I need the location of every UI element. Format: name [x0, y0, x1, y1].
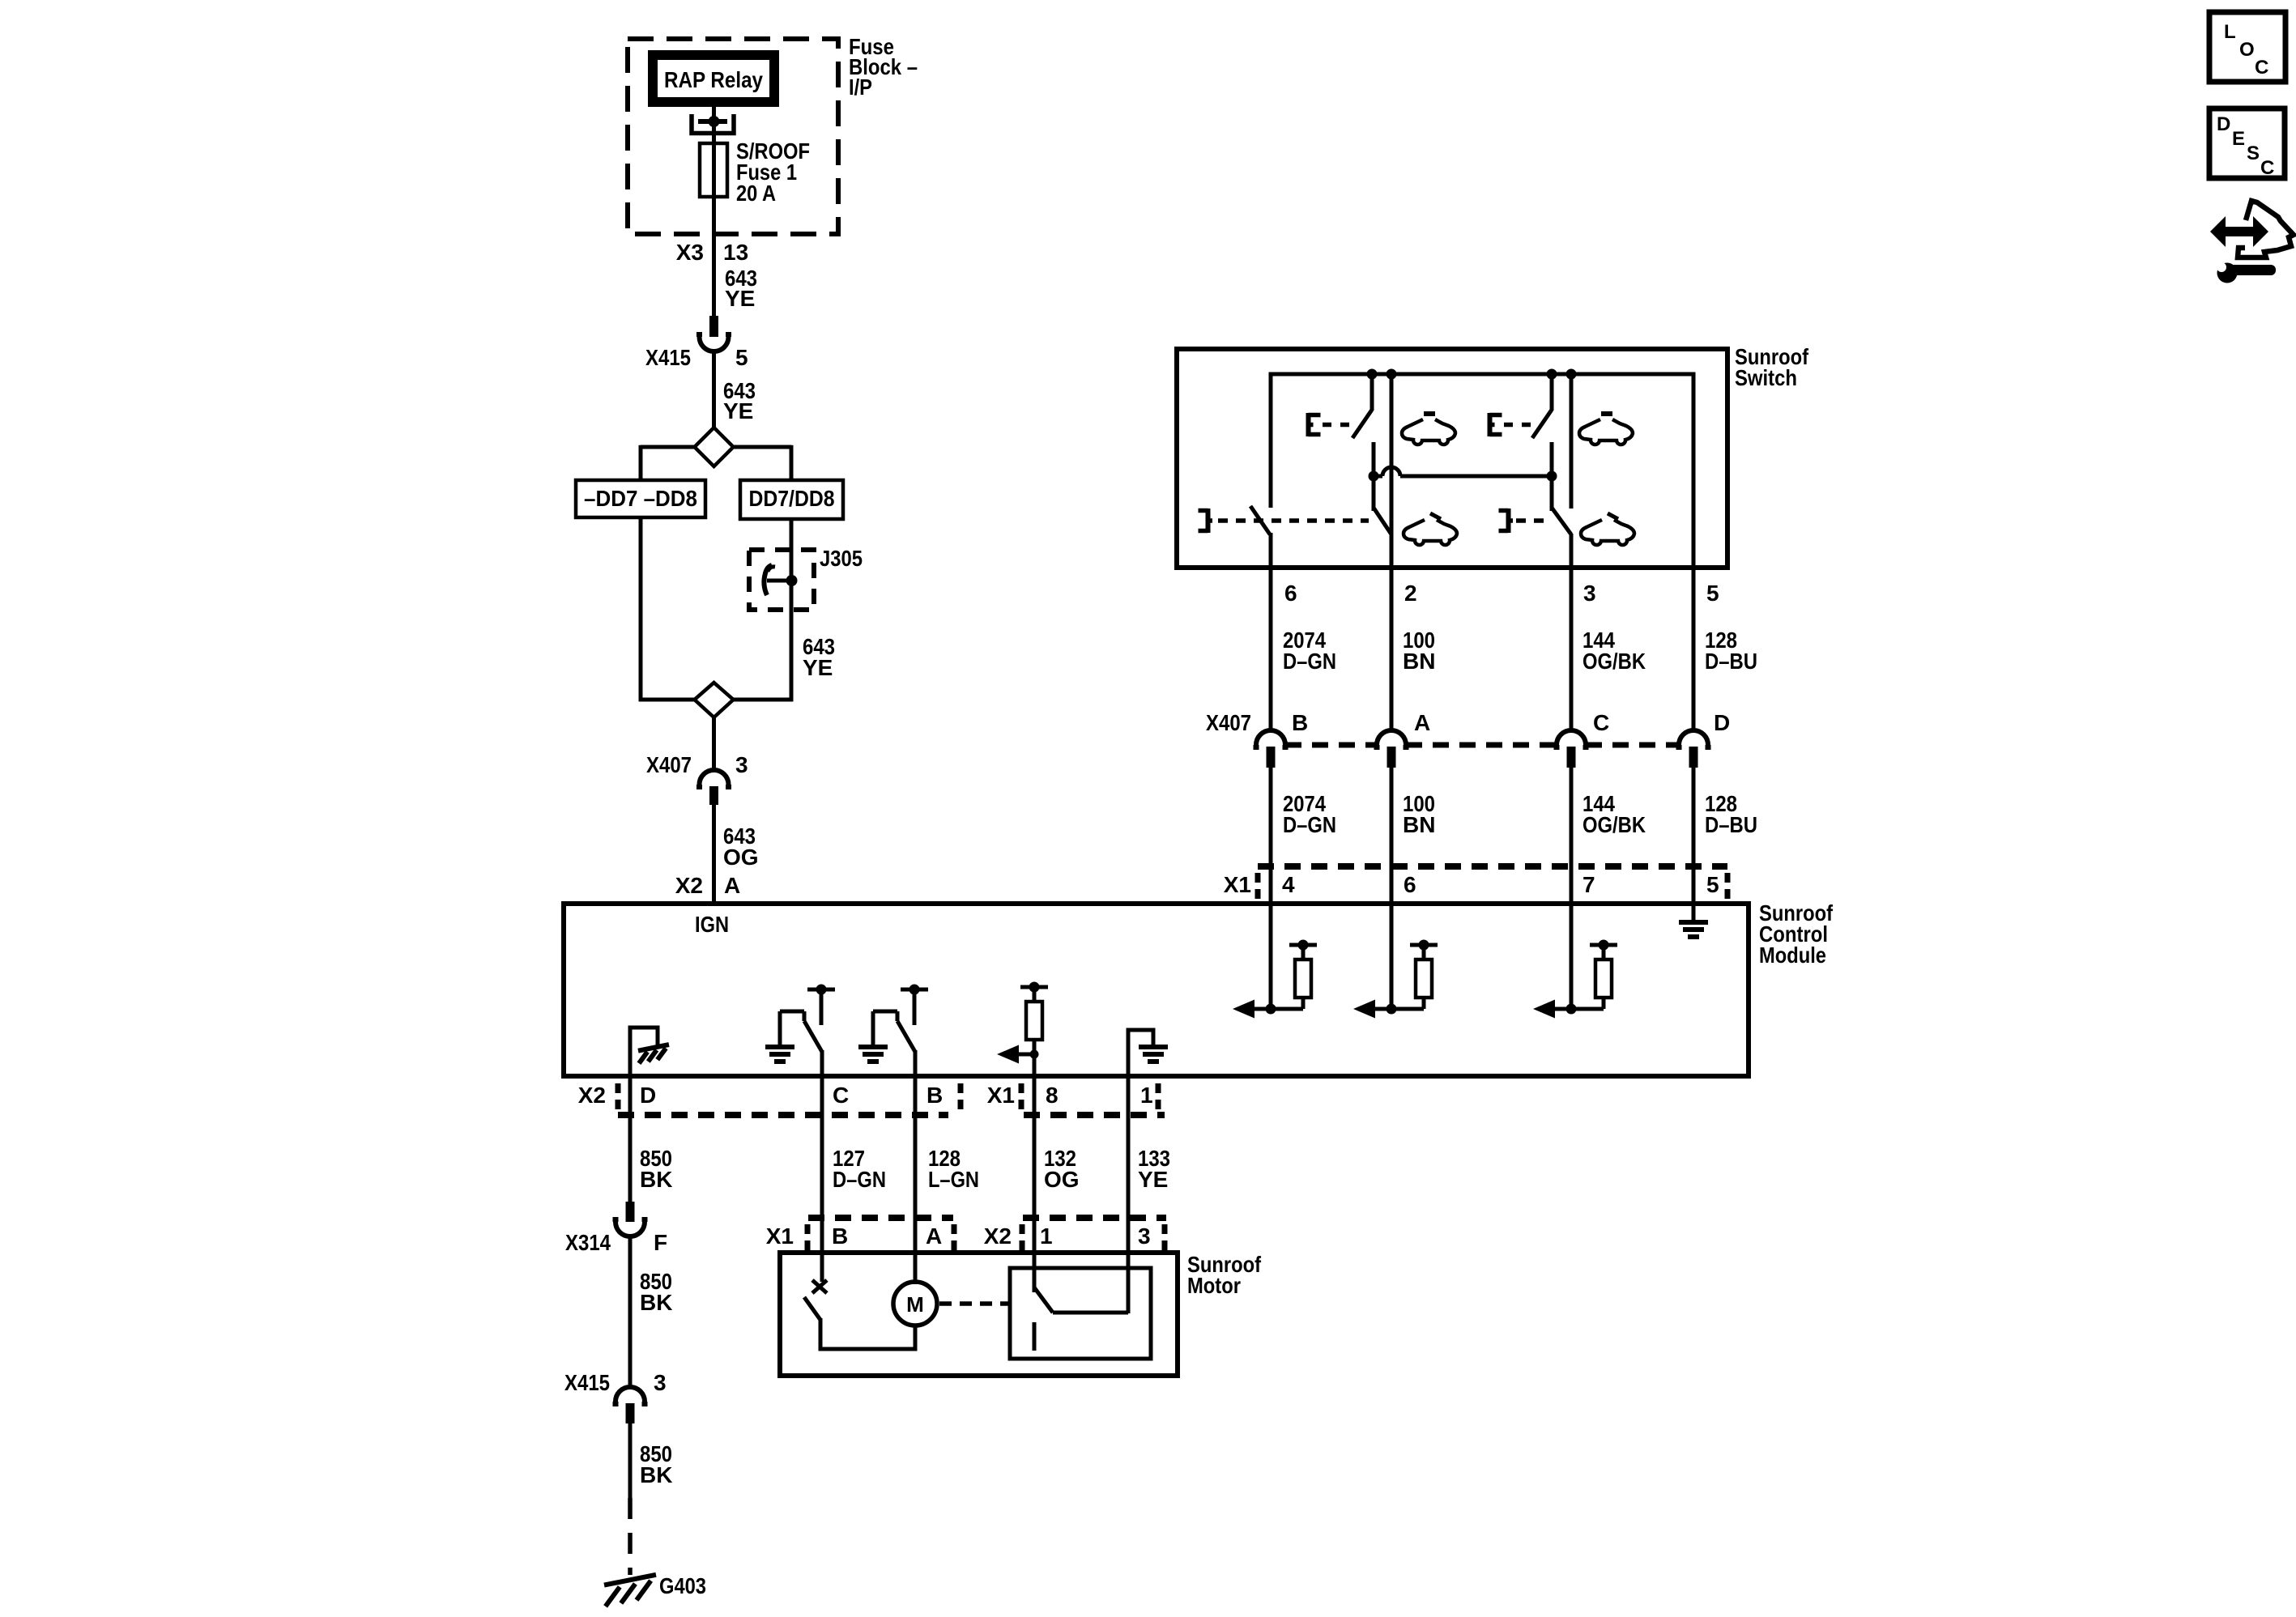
switch S1 open blade	[1250, 506, 1270, 534]
mid link wire	[1374, 467, 1552, 476]
wire 128 L-GN	[914, 1079, 918, 1284]
module internal pullup pin4	[1233, 906, 1317, 1019]
fuse F1 S/ROOF 20A	[700, 143, 727, 317]
wire pin3 upper	[1570, 374, 1574, 509]
connector X415 pin 3	[564, 1370, 667, 1423]
connector X407 B	[1256, 710, 1308, 768]
J305 switch blade	[764, 565, 775, 595]
splice diamond upper	[695, 428, 734, 466]
connector X1 row dashed	[1258, 863, 1727, 870]
switch S2 lower blade	[1374, 508, 1391, 534]
sunroof control module box	[564, 904, 1749, 1076]
svg-text:–DD7 –DD8: –DD7 –DD8	[584, 486, 697, 511]
icon DESC	[2209, 109, 2285, 179]
fuse block I/P dashed box	[628, 39, 838, 234]
connector X407 pin 3	[646, 752, 748, 805]
wire 643 YE label	[725, 266, 757, 311]
label pin 3	[1583, 581, 1596, 606]
svg-text:YE: YE	[1138, 1167, 1168, 1192]
svg-text:C: C	[1593, 710, 1609, 735]
svg-text:5: 5	[735, 345, 748, 370]
svg-text:D–GN: D–GN	[1283, 649, 1336, 674]
label 128 D-BU	[1705, 628, 1757, 674]
label J305	[820, 546, 863, 571]
svg-text:M: M	[906, 1292, 924, 1317]
wire pin2	[1390, 374, 1394, 586]
svg-text:6: 6	[1284, 581, 1297, 606]
label X1 pin 8	[1046, 1083, 1059, 1108]
label Sunroof Control Module	[1759, 900, 1834, 968]
position switch blade	[1034, 1287, 1053, 1313]
svg-text:B: B	[926, 1083, 943, 1108]
svg-text:YE: YE	[725, 286, 755, 311]
svg-text:X2: X2	[984, 1223, 1012, 1249]
svg-text:X1: X1	[766, 1223, 794, 1249]
label X2 pin A	[675, 873, 740, 898]
svg-text:D–BU: D–BU	[1705, 812, 1757, 837]
svg-text:YE: YE	[803, 655, 833, 680]
svg-text:2: 2	[1404, 581, 1417, 606]
module internal ground hook 1	[1128, 1030, 1168, 1079]
node bus 1	[1367, 369, 1378, 380]
label X3 pin 13	[676, 240, 748, 265]
svg-text:IGN: IGN	[695, 912, 729, 937]
wire 643 YE label 2	[723, 378, 756, 423]
wire 128 D-BU lower	[1692, 768, 1696, 905]
node mid link right	[1547, 471, 1557, 482]
icon LOC	[2209, 12, 2285, 82]
relay pin socket	[692, 114, 734, 134]
svg-text:B: B	[832, 1223, 848, 1249]
connector X407 A	[1377, 710, 1430, 768]
wire 132 OG	[1033, 1079, 1037, 1292]
sunroof switch box	[1177, 349, 1727, 568]
module internal pullup pin6	[1353, 906, 1438, 1019]
wire pin3 lower	[1570, 534, 1574, 586]
label X1 pin7	[1582, 872, 1595, 897]
svg-text:C: C	[2260, 157, 2274, 179]
switch S3 pole	[1550, 442, 1554, 511]
position switch contact stub	[1033, 1322, 1037, 1351]
switch S3 lower blade	[1552, 508, 1571, 534]
wire right branch down	[734, 519, 794, 701]
wire 2074 D-GN upper	[1269, 586, 1273, 731]
wire 127 D-GN	[820, 1079, 824, 1282]
label X2 pin C	[833, 1083, 849, 1108]
module internal ground pin5	[1679, 906, 1708, 937]
svg-text:C: C	[833, 1083, 849, 1108]
wire 643 YE label 3	[803, 634, 835, 680]
node bus 4	[1566, 369, 1577, 380]
svg-text:D–GN: D–GN	[833, 1167, 886, 1192]
wire 643 OG label	[723, 823, 759, 870]
svg-text:X407: X407	[646, 752, 692, 777]
svg-text:D: D	[1714, 710, 1730, 735]
wire 144 OG/BK upper	[1570, 586, 1574, 731]
svg-text:Motor: Motor	[1187, 1273, 1241, 1298]
label 100 BN	[1403, 628, 1435, 674]
svg-text:O: O	[2239, 39, 2255, 61]
box DD7/DD8	[740, 480, 843, 519]
label Sunroof Switch	[1735, 344, 1809, 390]
label Sunroof Motor	[1187, 1252, 1262, 1298]
svg-text:Module: Module	[1759, 943, 1826, 968]
svg-text:X2: X2	[675, 873, 703, 898]
wire 850 BK 3	[628, 1423, 633, 1498]
svg-text:3: 3	[1583, 581, 1596, 606]
label X2 row	[578, 1083, 618, 1109]
svg-text:BK: BK	[640, 1290, 672, 1315]
motor limit switch wire	[820, 1318, 915, 1349]
connector X314 pin F	[565, 1202, 667, 1255]
svg-text:8: 8	[1046, 1083, 1059, 1108]
svg-text:L–GN: L–GN	[928, 1167, 979, 1192]
label X1 pin6	[1404, 872, 1416, 897]
connector X407 C	[1557, 710, 1609, 768]
label 128 L-GN	[928, 1146, 979, 1192]
svg-text:X3: X3	[676, 240, 704, 265]
label motor pin 3	[1138, 1223, 1165, 1250]
wire 2074 D-GN lower	[1269, 768, 1273, 905]
svg-text:X415: X415	[645, 345, 691, 370]
mech bracket E upper left	[1309, 413, 1351, 436]
svg-text:D: D	[2217, 113, 2230, 135]
motor M1	[893, 1282, 937, 1326]
svg-text:I/P: I/P	[849, 74, 872, 100]
car icon vent right	[1579, 414, 1633, 445]
motor mech dashed link	[939, 1301, 1008, 1306]
svg-text:DD7/DD8: DD7/DD8	[749, 486, 835, 511]
switch S2 upper stub	[1370, 374, 1374, 411]
svg-text:X407: X407	[1206, 710, 1251, 735]
label X1 row lower	[987, 1083, 1021, 1109]
X407 row dashes	[1285, 743, 1679, 748]
label X1 row	[1224, 872, 1258, 899]
svg-text:X1: X1	[1224, 872, 1251, 897]
svg-text:X314: X314	[565, 1230, 611, 1255]
label pin 2	[1404, 581, 1417, 606]
svg-text:13: 13	[723, 240, 748, 265]
wire left branch down	[639, 517, 695, 701]
label G403	[659, 1573, 706, 1598]
svg-text:B: B	[1292, 710, 1308, 735]
wire 100 BN lower	[1390, 768, 1394, 905]
wire 100 BN upper	[1390, 586, 1394, 731]
motor limit switch contact	[812, 1280, 827, 1293]
wire splice to left branch	[641, 445, 695, 482]
svg-text:5: 5	[1706, 581, 1719, 606]
svg-text:L: L	[2224, 21, 2236, 43]
label 144 OG/BK 2	[1582, 791, 1646, 837]
label motor X1	[766, 1223, 807, 1250]
wire diamond to X407	[712, 717, 716, 771]
label 144 OG/BK	[1582, 628, 1646, 674]
position switch wire 1	[1033, 1268, 1037, 1289]
module internal ground hook D	[630, 1028, 669, 1079]
splice diamond lower	[695, 683, 734, 717]
icon harness repair	[2210, 201, 2294, 283]
module internal drive 8	[997, 982, 1048, 1079]
wire 643 OG	[712, 805, 716, 904]
wire 133 YE	[1127, 1079, 1131, 1313]
mech link bracket left	[1199, 509, 1370, 533]
svg-text:X415: X415	[564, 1370, 610, 1395]
label motor pin 1	[1040, 1223, 1053, 1249]
connector X407 D	[1679, 710, 1730, 768]
ground G403	[604, 1575, 656, 1606]
node J305	[767, 575, 798, 586]
wire 850 BK dashed to G403	[628, 1498, 633, 1575]
node mid link left	[1369, 471, 1379, 482]
svg-text:F: F	[654, 1230, 667, 1255]
motor limit switch blade	[804, 1297, 820, 1320]
label 132 OG	[1044, 1146, 1080, 1192]
svg-text:J305: J305	[820, 546, 863, 571]
label motor pin B	[832, 1223, 848, 1249]
label pin 6	[1284, 581, 1297, 606]
wire 850 BK 2	[628, 1235, 633, 1389]
label 100 BN 2	[1403, 791, 1435, 837]
wire relay to fuse	[712, 107, 716, 146]
svg-text:BK: BK	[640, 1462, 672, 1487]
label X1 pin4	[1282, 872, 1295, 897]
svg-text:4: 4	[1282, 872, 1295, 897]
label X2 pin D	[640, 1083, 656, 1108]
svg-text:RAP Relay: RAP Relay	[664, 67, 763, 92]
module internal pullup pin7	[1533, 906, 1617, 1019]
label 850 BK 2	[640, 1269, 672, 1315]
RAP Relay K38	[653, 55, 774, 102]
label 128 D-BU 2	[1705, 791, 1757, 837]
car icon slide left	[1404, 513, 1457, 545]
svg-text:X1: X1	[987, 1083, 1015, 1108]
car icon slide right	[1581, 513, 1634, 545]
svg-text:3: 3	[735, 752, 748, 777]
svg-text:X2: X2	[578, 1083, 606, 1108]
position switch housing	[1010, 1268, 1151, 1359]
svg-text:1: 1	[1040, 1223, 1053, 1249]
svg-text:BK: BK	[640, 1167, 672, 1192]
label motor X2	[984, 1223, 1022, 1250]
wire 850 BK	[628, 1079, 633, 1203]
connector X2 row dashed	[618, 1112, 1165, 1118]
svg-text:S: S	[2247, 143, 2260, 164]
label Fuse Block I/P	[849, 34, 918, 100]
svg-text:A: A	[724, 873, 740, 898]
svg-text:D–GN: D–GN	[1283, 812, 1336, 837]
label S/ROOF Fuse 1 20A	[736, 138, 810, 206]
label X1 pin 1	[1140, 1083, 1158, 1109]
svg-text:1: 1	[1140, 1083, 1153, 1108]
label 850 BK	[640, 1146, 672, 1192]
node bus 3	[1547, 369, 1557, 380]
position switch common	[1053, 1253, 1128, 1313]
mech bracket E upper right	[1490, 413, 1532, 436]
box -DD7 -DD8	[576, 480, 705, 517]
sunroof motor box	[780, 1253, 1178, 1376]
svg-text:OG: OG	[723, 845, 759, 870]
svg-text:BN: BN	[1403, 649, 1435, 674]
svg-text:3: 3	[1138, 1223, 1151, 1249]
label pin 5	[1706, 581, 1719, 606]
connector X415 pin 5	[645, 316, 748, 370]
wire 128 D-BU upper	[1692, 568, 1696, 731]
svg-text:20 A: 20 A	[736, 181, 776, 206]
svg-text:OG/BK: OG/BK	[1582, 812, 1646, 837]
wire splice to right branch	[734, 445, 792, 482]
wire X2-A into module	[712, 893, 716, 906]
svg-text:7: 7	[1582, 872, 1595, 897]
switch S2 pole	[1372, 442, 1376, 511]
car icon vent left	[1402, 414, 1455, 445]
label X1 pin5	[1706, 872, 1727, 899]
svg-text:YE: YE	[723, 398, 753, 423]
node bus 2	[1387, 369, 1397, 380]
label 2074 D-GN	[1283, 628, 1336, 674]
label 133 YE	[1138, 1146, 1170, 1192]
label X407 row	[1206, 710, 1251, 735]
label 127 D-GN	[833, 1146, 886, 1192]
svg-text:G403: G403	[659, 1573, 706, 1598]
svg-text:E: E	[2232, 128, 2245, 150]
switch S3 upper stub	[1550, 374, 1554, 411]
node relay output	[698, 116, 727, 127]
module internal switch B	[858, 985, 928, 1079]
svg-text:5: 5	[1706, 872, 1719, 897]
wire pin6 below blade	[1269, 533, 1273, 586]
svg-text:BN: BN	[1403, 812, 1435, 837]
label 850 BK 3	[640, 1441, 672, 1487]
svg-text:OG: OG	[1044, 1167, 1080, 1192]
wire 643 YE to splice	[712, 350, 716, 429]
wire 144 OG/BK lower	[1570, 768, 1574, 905]
svg-text:C: C	[2255, 57, 2268, 79]
switch S3 upper blade	[1532, 410, 1552, 438]
svg-text:Switch: Switch	[1735, 365, 1797, 390]
switch inner bus	[1269, 372, 1694, 568]
svg-text:6: 6	[1404, 872, 1416, 897]
svg-text:3: 3	[654, 1370, 667, 1395]
label 2074 D-GN 2	[1283, 791, 1336, 837]
label IGN	[695, 912, 729, 937]
mech link bracket right	[1499, 509, 1548, 533]
label X2 pin B	[926, 1083, 961, 1109]
connector motor row dashed	[808, 1215, 1166, 1221]
svg-text:OG/BK: OG/BK	[1582, 649, 1646, 674]
splice J305 dashed box	[749, 550, 814, 610]
label motor pin A	[926, 1223, 954, 1250]
svg-text:D–BU: D–BU	[1705, 649, 1757, 674]
svg-text:A: A	[1414, 710, 1430, 735]
svg-text:D: D	[640, 1083, 656, 1108]
module internal switch C	[765, 985, 835, 1079]
switch S2 upper blade	[1352, 410, 1372, 438]
svg-text:A: A	[926, 1223, 942, 1249]
